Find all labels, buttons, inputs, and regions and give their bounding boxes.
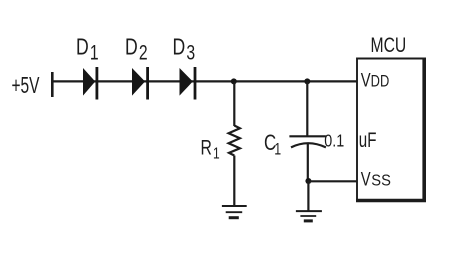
terminal bar: [51, 72, 54, 97]
wire ground below C1: [307, 181, 309, 211]
ground below C1: [296, 211, 322, 221]
node junction 1: [231, 78, 237, 84]
wire R1 bottom: [233, 156, 235, 206]
wire R1 top: [233, 81, 235, 126]
diode D3: [180, 67, 196, 100]
svg-text:uF: uF: [359, 128, 377, 152]
wire C1 top: [306, 81, 308, 136]
svg-text:0.1: 0.1: [324, 132, 344, 151]
svg-text:VDD: VDD: [361, 70, 389, 91]
wire C1 bottom: [307, 144, 309, 182]
svg-text:MCU: MCU: [371, 32, 407, 56]
svg-text:V: V: [361, 169, 371, 190]
resistor R1: [229, 126, 240, 156]
node junction 2: [304, 78, 310, 84]
svg-text:+5V: +5V: [12, 73, 41, 99]
diode D1: [83, 67, 97, 100]
MCU box U1: [356, 58, 426, 203]
svg-text:R: R: [201, 135, 212, 159]
diode D2: [132, 67, 148, 100]
svg-text:SS: SS: [371, 172, 391, 189]
wire VSS: [308, 180, 357, 182]
ground below R1: [222, 206, 247, 218]
node junction 3: [305, 178, 311, 184]
capacitor C1: [289, 136, 326, 147]
svg-text:1: 1: [274, 141, 281, 159]
svg-text:1: 1: [213, 144, 220, 162]
wire main horizontal: [53, 80, 357, 82]
